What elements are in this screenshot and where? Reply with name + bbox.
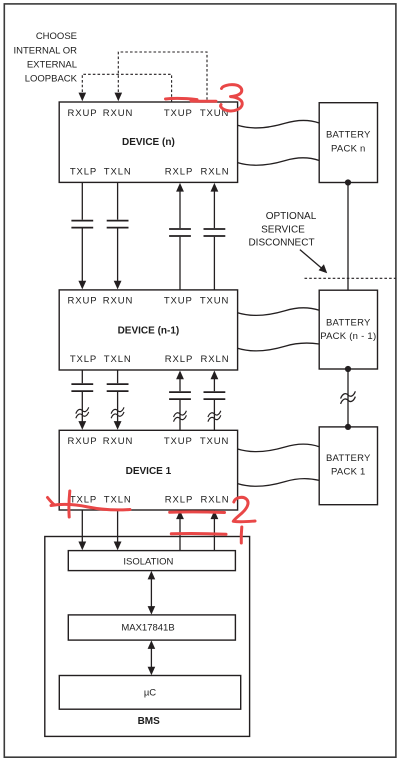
svg-text:RXLN: RXLN	[201, 354, 230, 365]
svg-text:DEVICE (n): DEVICE (n)	[122, 137, 175, 148]
svg-text:RXLN: RXLN	[201, 167, 230, 178]
svg-text:TXLN: TXLN	[104, 494, 132, 505]
svg-text:RXLP: RXLP	[165, 494, 193, 505]
svg-text:µC: µC	[144, 687, 156, 698]
svg-text:RXUP: RXUP	[68, 436, 98, 447]
svg-text:ISOLATION: ISOLATION	[123, 556, 173, 567]
svg-text:DISCONNECT: DISCONNECT	[248, 238, 314, 249]
svg-text:TXLP: TXLP	[70, 167, 97, 178]
svg-text:PACK n: PACK n	[331, 144, 366, 155]
svg-text:OPTIONAL: OPTIONAL	[266, 211, 317, 222]
svg-text:MAX17841B: MAX17841B	[121, 622, 174, 633]
svg-text:LOOPBACK: LOOPBACK	[25, 73, 78, 84]
svg-text:DEVICE 1: DEVICE 1	[126, 466, 172, 477]
svg-text:TXUP: TXUP	[164, 436, 193, 447]
svg-text:BATTERY: BATTERY	[326, 453, 371, 464]
svg-text:RXLN: RXLN	[201, 494, 230, 505]
svg-text:BMS: BMS	[138, 716, 161, 727]
svg-text:PACK (n - 1): PACK (n - 1)	[320, 331, 376, 342]
svg-text:RXLP: RXLP	[165, 167, 193, 178]
svg-text:DEVICE (n-1): DEVICE (n-1)	[118, 325, 180, 336]
svg-text:RXUP: RXUP	[68, 296, 98, 307]
svg-text:RXUN: RXUN	[103, 296, 134, 307]
svg-text:BATTERY: BATTERY	[326, 318, 371, 329]
svg-text:EXTERNAL: EXTERNAL	[27, 60, 77, 71]
svg-text:TXLN: TXLN	[104, 167, 132, 178]
svg-text:TXUP: TXUP	[164, 108, 193, 119]
svg-text:INTERNAL OR: INTERNAL OR	[13, 45, 77, 56]
svg-text:RXUP: RXUP	[68, 108, 98, 119]
svg-text:TXLP: TXLP	[70, 354, 97, 365]
svg-text:RXLP: RXLP	[165, 354, 193, 365]
svg-text:RXUN: RXUN	[103, 436, 134, 447]
svg-text:RXUN: RXUN	[103, 108, 134, 119]
svg-text:TXUN: TXUN	[200, 436, 229, 447]
svg-text:TXLN: TXLN	[104, 354, 132, 365]
svg-text:SERVICE: SERVICE	[261, 224, 305, 235]
svg-text:BATTERY: BATTERY	[326, 129, 371, 140]
svg-text:TXUP: TXUP	[164, 296, 193, 307]
svg-text:TXUN: TXUN	[200, 296, 229, 307]
svg-text:CHOOSE: CHOOSE	[36, 31, 77, 42]
svg-text:PACK 1: PACK 1	[331, 467, 366, 478]
